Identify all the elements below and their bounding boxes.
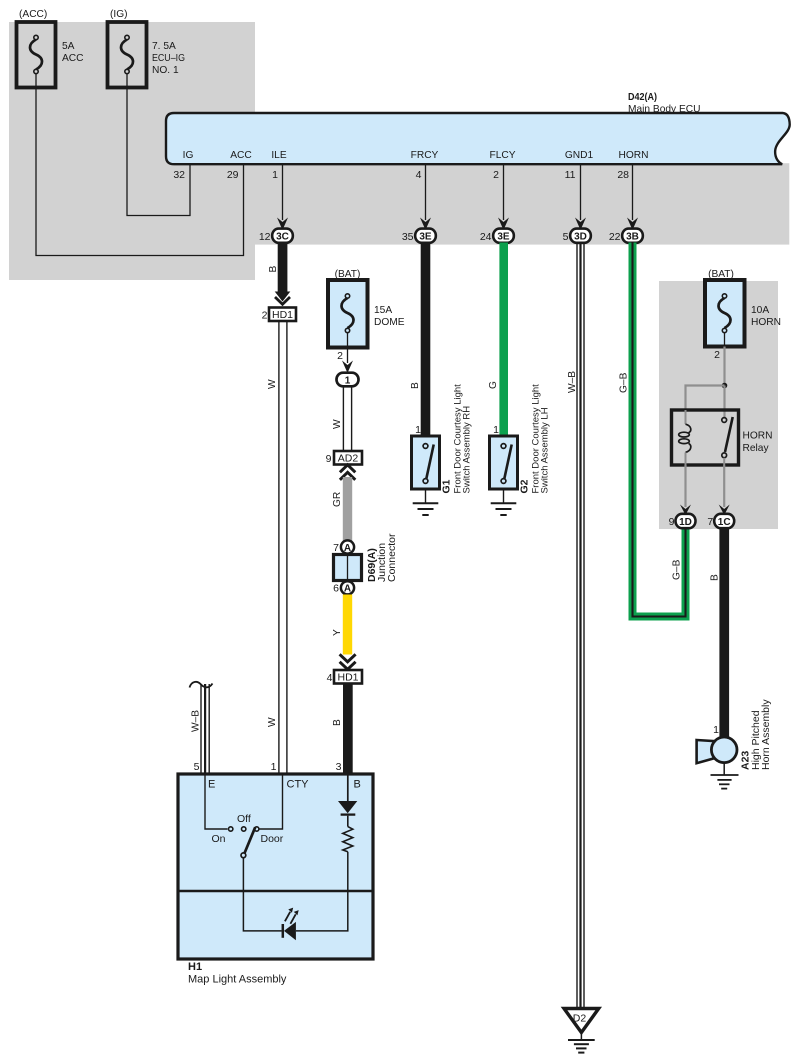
svg-text:7. 5A: 7. 5A <box>152 41 176 52</box>
stub ILE with arrow into oval 3C <box>277 164 288 230</box>
wire W-B pigtail at H1 pin 5 <box>190 682 213 774</box>
svg-text:29: 29 <box>227 169 239 181</box>
svg-text:HORN: HORN <box>751 317 781 328</box>
wire B from HD1 to H1 pin 3 <box>332 684 353 776</box>
svg-text:2: 2 <box>714 349 720 361</box>
svg-text:5A: 5A <box>62 41 75 52</box>
wire from fuse IG to ECU pin 32 <box>127 88 190 216</box>
background panel top-left <box>9 22 255 280</box>
wire B FRCY to G1 <box>410 243 431 437</box>
wire B from 1C to horn <box>710 528 730 738</box>
stub GND1 <box>575 164 586 230</box>
svg-text:W–B: W–B <box>191 710 202 732</box>
svg-text:7: 7 <box>707 516 713 528</box>
wire W from oval 1 to AD2 <box>332 387 352 452</box>
horn A23 <box>697 737 737 763</box>
svg-text:D42(A): D42(A) <box>628 92 657 103</box>
label A23 <box>740 699 773 770</box>
svg-text:W: W <box>267 717 278 727</box>
svg-text:(ACC): (ACC) <box>19 9 47 20</box>
svg-text:7: 7 <box>333 542 339 554</box>
svg-text:Map Light Assembly: Map Light Assembly <box>188 974 287 986</box>
svg-text:5: 5 <box>563 231 569 243</box>
connector oval 3C <box>259 229 293 243</box>
wire W-B GND1 to D2 <box>567 243 584 1009</box>
svg-text:9: 9 <box>326 453 332 465</box>
svg-text:B: B <box>268 266 279 273</box>
wire from fuse ACC to ECU pin 29 <box>36 88 244 256</box>
svg-text:B: B <box>410 382 421 389</box>
svg-text:D2: D2 <box>573 1013 587 1025</box>
svg-text:A: A <box>344 543 351 554</box>
ground horn <box>711 763 739 789</box>
connector oval 3E (FLCY) <box>480 229 514 243</box>
svg-text:NO. 1: NO. 1 <box>152 65 179 76</box>
Main Body ECU D42(A) <box>166 92 790 164</box>
wire Y from junction to HD1 <box>332 595 356 670</box>
svg-text:Switch Assembly RH: Switch Assembly RH <box>462 406 473 494</box>
svg-text:HORN: HORN <box>619 150 649 161</box>
ground D2 <box>564 1009 599 1053</box>
svg-text:1C: 1C <box>718 517 731 528</box>
connector oval 3E (FRCY) <box>402 229 436 243</box>
svg-text:1D: 1D <box>679 517 692 528</box>
svg-text:3B: 3B <box>626 232 639 243</box>
fuse HORN (BAT) <box>705 269 781 361</box>
svg-text:ACC: ACC <box>62 53 84 64</box>
fuse DOME (BAT) <box>328 269 405 362</box>
svg-text:1: 1 <box>271 761 277 773</box>
switch G2 <box>490 436 518 489</box>
background band under ECU <box>166 163 789 244</box>
horn relay box <box>672 410 773 465</box>
connector oval 1C <box>707 514 734 528</box>
svg-text:DOME: DOME <box>374 317 405 328</box>
svg-text:Connector: Connector <box>386 533 398 582</box>
svg-text:G–B: G–B <box>671 559 682 580</box>
wire relay to 1C with arrow <box>719 465 730 515</box>
svg-text:24: 24 <box>480 231 492 243</box>
svg-text:12: 12 <box>259 231 271 243</box>
wire G-B from 3B to 1D <box>618 243 685 617</box>
svg-text:3E: 3E <box>419 232 432 243</box>
svg-text:1: 1 <box>345 375 351 386</box>
svg-text:22: 22 <box>609 231 621 243</box>
wire B from 3C to HD1 <box>268 243 290 305</box>
svg-text:B: B <box>332 719 343 726</box>
svg-text:1: 1 <box>272 169 278 181</box>
connector HD1 (pin 2) <box>262 308 296 322</box>
junction node dot <box>722 383 728 389</box>
H1 map light assembly box <box>178 761 373 986</box>
connector oval 1D <box>669 514 696 528</box>
wire W from HD1 to H1 pin1 <box>267 321 287 774</box>
wire relay to 1D with arrow <box>680 465 691 515</box>
svg-text:3: 3 <box>336 761 342 773</box>
junction connector pin 6 circle A <box>333 581 354 595</box>
svg-text:W: W <box>267 379 278 389</box>
stub FLCY <box>498 164 509 230</box>
svg-text:2: 2 <box>493 169 499 181</box>
junction connector D69(A) <box>334 533 399 582</box>
svg-text:ILE: ILE <box>271 150 286 161</box>
junction connector pin 7 circle A <box>333 540 354 554</box>
H1 diode + resistor branch <box>296 774 357 931</box>
svg-text:15A: 15A <box>374 305 392 316</box>
svg-text:G1: G1 <box>441 479 453 493</box>
fuse ACC <box>17 9 84 88</box>
svg-text:3E: 3E <box>497 232 510 243</box>
connector oval 3D (GND1) <box>563 229 591 243</box>
svg-text:G: G <box>488 381 499 389</box>
svg-text:HD1: HD1 <box>272 309 293 321</box>
svg-text:On: On <box>212 833 226 845</box>
stub FRCY <box>420 164 431 230</box>
ground G1 <box>413 489 439 515</box>
svg-text:10A: 10A <box>751 305 769 316</box>
svg-text:G–B: G–B <box>618 372 629 393</box>
svg-text:H1: H1 <box>188 961 202 973</box>
svg-text:A: A <box>344 584 351 595</box>
H1 LED <box>283 908 299 941</box>
svg-text:2: 2 <box>337 350 343 362</box>
fuse IG <box>108 9 186 88</box>
svg-text:W–B: W–B <box>567 371 578 393</box>
svg-text:4: 4 <box>416 169 422 181</box>
svg-text:ECU–IG: ECU–IG <box>152 53 185 64</box>
svg-text:ACC: ACC <box>230 150 252 161</box>
svg-text:GR: GR <box>332 492 343 507</box>
svg-text:Y: Y <box>332 629 343 636</box>
wire dot to relay coil <box>686 386 725 412</box>
svg-text:3C: 3C <box>276 232 289 243</box>
svg-text:B: B <box>354 779 361 791</box>
svg-text:B: B <box>710 574 721 581</box>
wire GR from AD2 to junction connector <box>332 477 352 541</box>
relay coil <box>679 410 691 465</box>
svg-text:FLCY: FLCY <box>489 150 515 161</box>
svg-text:9: 9 <box>669 516 675 528</box>
svg-text:FRCY: FRCY <box>411 150 439 161</box>
arrow up into AD2 <box>340 465 355 480</box>
svg-text:W: W <box>332 419 343 429</box>
svg-text:4: 4 <box>327 672 333 684</box>
ECU pin numbers <box>173 169 629 181</box>
connector AD2 (pin 9) <box>326 451 362 465</box>
svg-text:Switch Assembly LH: Switch Assembly LH <box>540 407 551 493</box>
svg-text:G2: G2 <box>519 479 531 493</box>
wire fuse to junction dot <box>723 347 725 386</box>
svg-text:CTY: CTY <box>287 779 310 791</box>
svg-text:3D: 3D <box>574 232 587 243</box>
connector HD1 (pin 4) <box>327 670 362 684</box>
relay switch <box>722 417 733 465</box>
svg-text:1: 1 <box>493 424 499 436</box>
svg-text:Door: Door <box>261 833 284 845</box>
wire G FLCY to G2 <box>488 243 508 437</box>
svg-text:HORN: HORN <box>743 431 773 442</box>
label G2 <box>519 384 551 494</box>
connector oval 1 <box>337 373 359 387</box>
svg-text:5: 5 <box>194 761 200 773</box>
svg-text:Main Body ECU: Main Body ECU <box>628 104 700 115</box>
wire dot to relay switch <box>723 386 725 419</box>
ground G2 <box>491 489 517 515</box>
svg-text:Horn Assembly: Horn Assembly <box>760 699 772 770</box>
svg-text:IG: IG <box>183 150 194 161</box>
svg-text:11: 11 <box>565 169 576 181</box>
svg-text:35: 35 <box>402 231 414 243</box>
H1 switch wiring <box>205 775 284 931</box>
svg-text:28: 28 <box>617 169 629 181</box>
stub HORN <box>627 164 638 230</box>
svg-text:E: E <box>208 779 215 791</box>
svg-text:GND1: GND1 <box>565 150 594 161</box>
svg-text:1: 1 <box>415 424 421 436</box>
svg-text:(IG): (IG) <box>110 9 128 20</box>
svg-text:HD1: HD1 <box>337 672 358 684</box>
svg-text:AD2: AD2 <box>338 453 359 465</box>
label G1 <box>441 384 473 494</box>
background panel horn relay <box>659 281 778 529</box>
switch G1 <box>412 436 440 489</box>
wire from DOME fuse to oval 1 <box>342 348 353 374</box>
connector oval 3B (HORN) <box>609 229 643 243</box>
svg-text:32: 32 <box>173 169 185 181</box>
svg-text:6: 6 <box>333 583 339 595</box>
svg-text:2: 2 <box>262 310 268 322</box>
svg-text:Relay: Relay <box>743 443 770 454</box>
svg-text:1: 1 <box>713 724 719 736</box>
svg-text:Off: Off <box>237 813 251 825</box>
